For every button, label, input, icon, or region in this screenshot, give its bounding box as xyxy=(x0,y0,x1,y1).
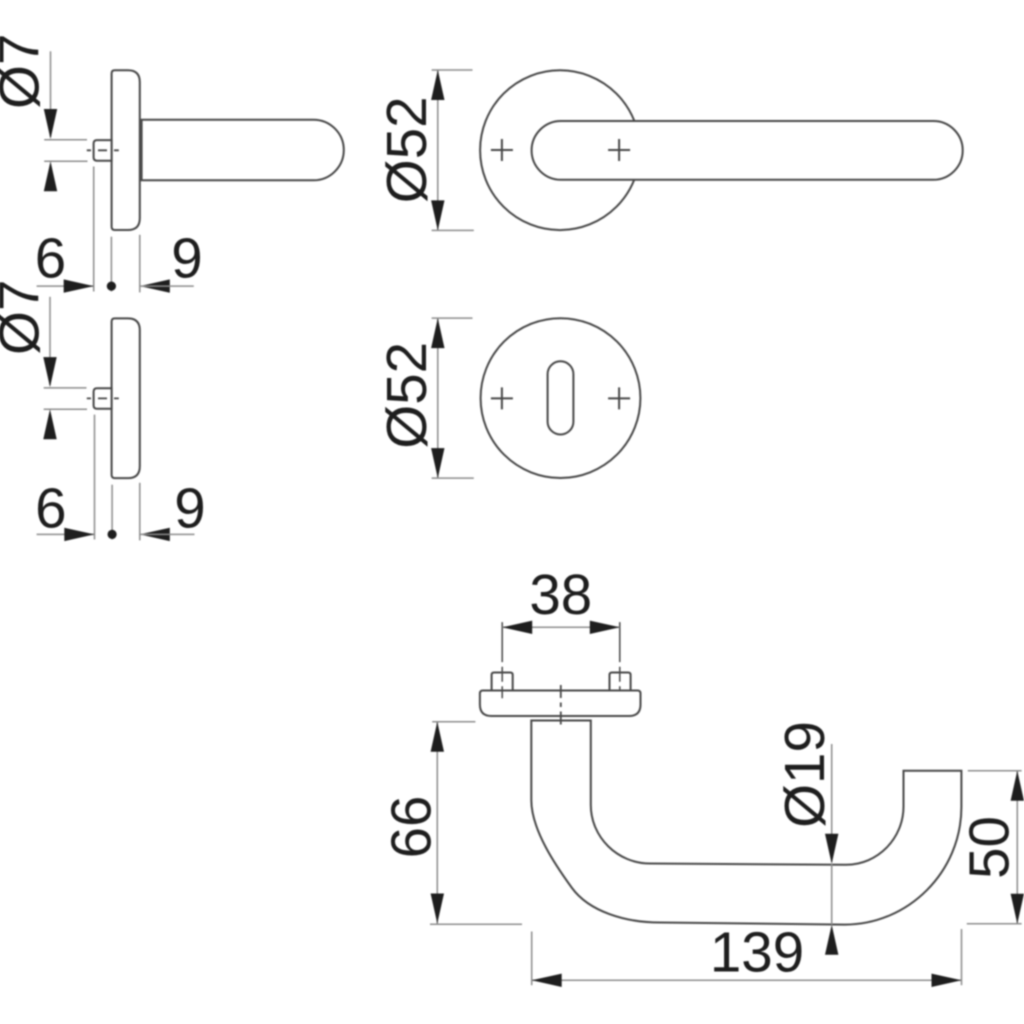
extension line spindle left face 2 xyxy=(94,415,96,540)
dimension 139 dim line xyxy=(532,979,962,981)
dimension 50 top arrow xyxy=(1011,771,1024,801)
screw centerline right (dash-dot) xyxy=(619,622,621,691)
extension line rose face 2 xyxy=(139,483,141,541)
svg-text:Ø7: Ø7 xyxy=(0,34,51,109)
dimension Ø19 lower arrow xyxy=(825,925,838,955)
dimension Ø52 (2) bottom arrow xyxy=(431,448,444,478)
dimension 66 top arrow xyxy=(431,722,444,752)
svg-text:9: 9 xyxy=(171,227,202,290)
screw mark right (rose) xyxy=(608,139,630,161)
extension line rose face (9) xyxy=(139,235,141,293)
svg-text:Ø52: Ø52 xyxy=(375,96,438,203)
rose circle Ø52 xyxy=(480,70,640,230)
spindle stub (escutcheon view) xyxy=(94,388,112,409)
dimension 50 dim line xyxy=(1016,771,1018,924)
dimension 6/9 (top) left arrow xyxy=(64,279,94,292)
dimension 6/9 (2) datum dot xyxy=(108,530,117,539)
keyhole slot xyxy=(548,361,574,434)
dimension Ø19 dim line upper xyxy=(831,744,833,862)
rose side view (lever) xyxy=(112,70,140,230)
svg-text:50: 50 xyxy=(958,816,1021,879)
dimension Ø7 (top) upper arrow xyxy=(44,109,57,139)
escutcheon circle Ø52 xyxy=(481,318,641,478)
dimension 6/9 (2) dim line right xyxy=(140,533,195,535)
dimension 6/9 (top) dim line right xyxy=(140,285,194,287)
dimension Ø7 (2) lower arrow xyxy=(43,409,56,439)
svg-text:Ø19: Ø19 xyxy=(773,721,836,828)
neck shoulder line xyxy=(531,720,592,722)
dimension Ø7 (top) lower arrow xyxy=(44,161,57,191)
dimension 139 extension line right xyxy=(961,929,963,985)
dimension Ø52 (2) top arrow xyxy=(431,318,444,348)
dimension Ø7 (2) extension line lower xyxy=(44,408,87,410)
screw centerline left (dash-dot) xyxy=(501,622,503,698)
dimension 139 right arrow xyxy=(932,974,962,987)
dimension 6/9 (2) left arrow xyxy=(64,528,94,541)
dimension Ø7 (top) extension line lower xyxy=(44,160,87,162)
dimension 66 extension line upper xyxy=(432,721,475,723)
dimension Ø52 (top) top arrow xyxy=(431,70,444,100)
rose side view (escutcheon) xyxy=(112,318,140,478)
screw mark right (escutcheon) xyxy=(608,387,630,409)
svg-text:Ø7: Ø7 xyxy=(0,280,51,355)
dimension Ø7 (2) extension line upper xyxy=(44,387,87,389)
dimension Ø52 (top) extension line lower xyxy=(432,229,474,231)
svg-text:66: 66 xyxy=(380,796,443,859)
dimension 50 extension line upper xyxy=(968,770,1022,772)
extension line door face 2 xyxy=(111,485,113,540)
lever bar side view xyxy=(142,120,344,181)
svg-text:9: 9 xyxy=(174,476,205,539)
dimension Ø19 dim line through tube xyxy=(831,864,833,925)
dimension 38 dim line xyxy=(502,626,620,628)
screw mark left (escutcheon) xyxy=(491,387,513,409)
dimension 50 bottom arrow xyxy=(1011,894,1024,924)
dimension Ø52 (top) dim line xyxy=(437,70,439,230)
dimension 139 extension line left xyxy=(531,932,533,986)
spindle stub side view xyxy=(94,140,112,161)
dimension 139 left arrow xyxy=(532,974,562,987)
extension line spindle left face (6) xyxy=(93,167,95,292)
dimension 6/9 (top) datum dot xyxy=(107,282,116,291)
dimension 50 extension line lower xyxy=(967,923,1022,925)
extension line door face (dot datum) xyxy=(110,237,112,292)
dimension 38 left arrow xyxy=(502,621,532,634)
dimension 6/9 (top) right arrow xyxy=(140,279,170,292)
dimension Ø7 (2) upper arrow xyxy=(43,357,56,387)
svg-text:38: 38 xyxy=(529,563,592,626)
dimension 6/9 (2) right arrow xyxy=(140,528,170,541)
dimension 38 right arrow xyxy=(590,621,620,634)
svg-text:Ø52: Ø52 xyxy=(375,342,438,449)
flange (rose profile, bottom view) xyxy=(480,691,641,717)
dimension Ø52 (2) extension line lower xyxy=(432,477,474,479)
spindle centerline (dashed) xyxy=(87,149,119,151)
lever body outline xyxy=(531,721,961,925)
dimension Ø52 (top) bottom arrow xyxy=(431,200,444,230)
dimension 6/9 (top) dim line left xyxy=(37,285,94,287)
dimension Ø19 upper arrow xyxy=(825,834,838,864)
spindle centerline 2 (dashed) xyxy=(87,397,119,399)
dimension Ø52 (top) extension line upper xyxy=(432,69,473,71)
dimension Ø7 (2) dim line upper xyxy=(49,297,51,385)
dimension Ø52 (2) dim line xyxy=(437,318,439,478)
dimension Ø7 (top) dim line upper xyxy=(50,51,52,137)
dimension Ø52 (2) extension line upper xyxy=(432,317,473,319)
dimension 66 extension line lower xyxy=(430,923,522,925)
screw mark left (rose) xyxy=(491,139,513,161)
dimension 66 bottom arrow xyxy=(431,894,444,924)
screw boss right xyxy=(610,673,631,691)
dimension Ø7 (top) extension line upper xyxy=(44,139,87,141)
svg-text:139: 139 xyxy=(710,921,804,984)
svg-text:6: 6 xyxy=(35,476,66,539)
screw boss left xyxy=(492,673,513,691)
dimension 66 dim line xyxy=(436,722,438,924)
spindle axis centerline (dashed) xyxy=(560,685,562,730)
dimension 6/9 (2) dim line left xyxy=(37,533,95,535)
lever front view (stadium) xyxy=(532,121,963,180)
